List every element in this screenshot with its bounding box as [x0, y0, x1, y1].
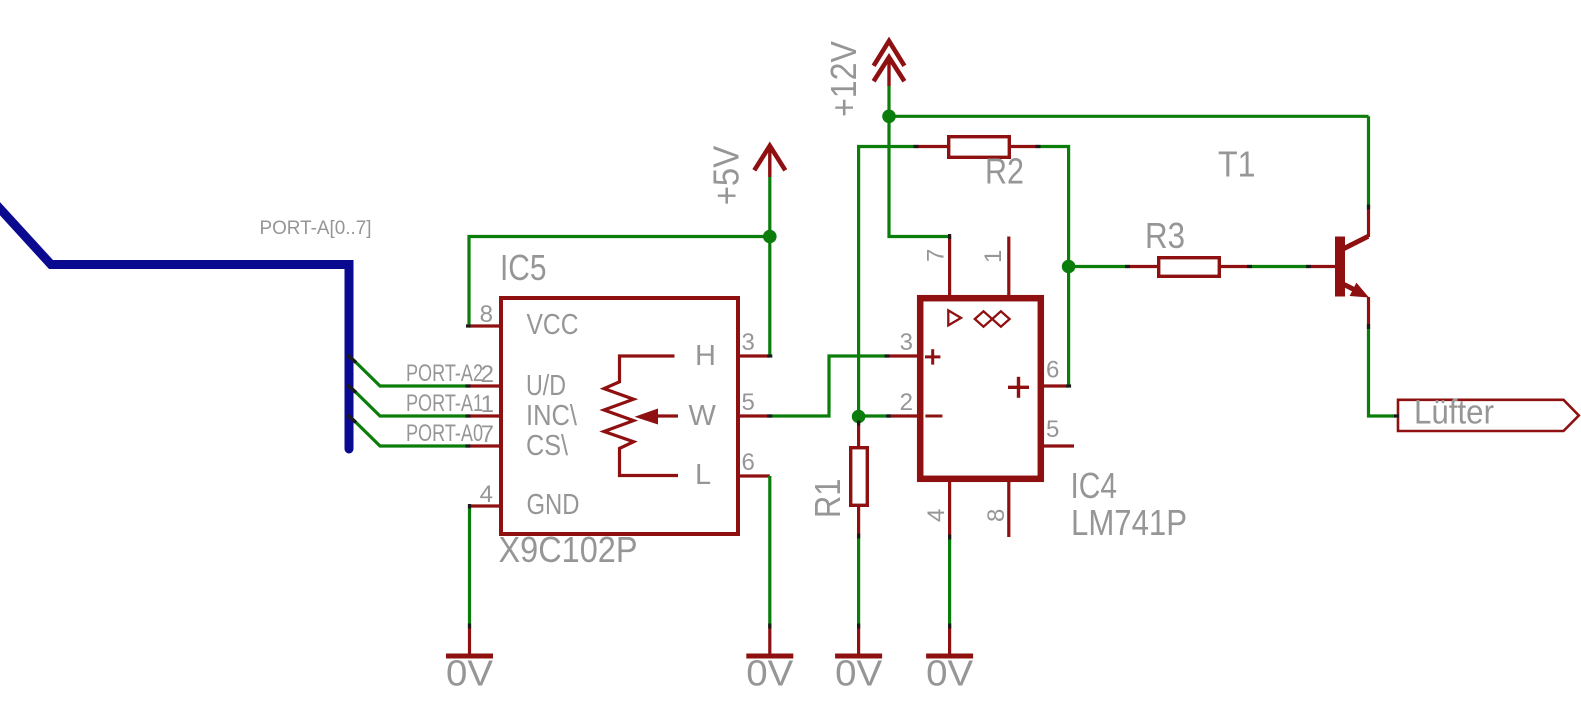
op-amp minus (pin2) — [925, 415, 942, 418]
op-amp plus (pin6 output) — [1008, 386, 1029, 389]
wire IC5 pin6 L to ground — [768, 476, 771, 626]
wire R2 right to output node — [1038, 147, 1069, 267]
wire IC5 GND to ground — [468, 506, 471, 626]
bus tap black mark PORT-A2 — [348, 355, 357, 363]
svg-text:U/D: U/D — [526, 370, 566, 402]
supply symbol +12V — [874, 41, 905, 66]
Luefter flag — [1398, 400, 1579, 431]
svg-text:R1: R1 — [807, 479, 848, 519]
wire feedback net (R2 left to pin2 node) — [859, 147, 916, 417]
wire pin2 node to op-amp pin2 — [859, 414, 889, 417]
svg-text:1: 1 — [481, 391, 494, 418]
svg-text:X9C102P: X9C102P — [499, 529, 638, 570]
op-amp plus (pin3) — [925, 355, 940, 358]
svg-text:0V: 0V — [926, 653, 973, 694]
IC5 pin 1 INC stub — [469, 414, 501, 417]
wire output node to op-amp pin6 — [1067, 267, 1070, 387]
svg-text:GND: GND — [527, 489, 580, 521]
svg-text:VCC: VCC — [527, 309, 579, 341]
IC5 pin 5 W stub — [738, 414, 770, 417]
ground symbol 0V (IC5 L) — [768, 626, 771, 654]
junction tick marks (black) — [466, 147, 1400, 629]
IC5 potentiometer symbol — [604, 356, 678, 476]
op-amp pin 4 stub — [948, 481, 951, 537]
wire +5V vertical — [768, 177, 771, 237]
wire net PORT-A1 (bus tap to IC5 pin INC) — [352, 389, 469, 417]
svg-text:0V: 0V — [835, 653, 882, 694]
op-amp infinity symbol — [975, 311, 1010, 326]
wire R3 to T1 base — [1249, 265, 1308, 268]
svg-text:8: 8 — [983, 509, 1010, 522]
ground symbol 0V (R1) — [857, 626, 860, 654]
op-amp pin 7 stub — [948, 237, 951, 297]
wire op-amp pin4 to ground — [948, 537, 951, 626]
op-amp triangle symbol — [948, 310, 961, 325]
op-amp pin 2 stub — [888, 414, 917, 417]
wire net PORT-A0 (bus tap to IC5 pin CS) — [352, 419, 469, 447]
resistor R2 — [916, 145, 949, 148]
svg-text:W: W — [689, 400, 717, 432]
IC5 pin 7 CS stub — [469, 444, 501, 447]
IC5 wiper arrow — [656, 414, 678, 417]
svg-text:PORT-A2: PORT-A2 — [406, 360, 483, 387]
transistor T1 — [1335, 237, 1345, 297]
wire R1 to ground — [857, 536, 860, 626]
resistor R1 — [857, 421, 860, 447]
wire T1 collector up — [1367, 116, 1370, 207]
svg-text:2: 2 — [900, 389, 913, 416]
junction dot output node — [1062, 260, 1076, 274]
svg-text:CS\: CS\ — [526, 430, 569, 462]
op-amp pin 6 stub — [1044, 384, 1069, 387]
op-amp pin 5 stub — [1044, 444, 1074, 447]
junction dot +12V node — [882, 110, 896, 124]
svg-text:Lüfter: Lüfter — [1414, 394, 1494, 432]
bus tap black mark PORT-A0 — [348, 415, 357, 423]
svg-text:PORT-A1: PORT-A1 — [406, 390, 483, 417]
svg-text:0V: 0V — [746, 653, 793, 694]
svg-text:5: 5 — [742, 389, 755, 416]
svg-text:PORT-A[0..7]: PORT-A[0..7] — [260, 218, 372, 239]
junction dot +5V node — [763, 230, 777, 244]
svg-text:PORT-A0: PORT-A0 — [406, 420, 483, 447]
wire T1 emitter to Luefter — [1369, 327, 1397, 417]
junction dot pin2 node — [852, 410, 866, 424]
svg-text:3: 3 — [900, 329, 913, 356]
wire output node to R3 — [1069, 265, 1127, 268]
svg-text:+12V: +12V — [823, 41, 864, 117]
svg-text:R3: R3 — [1145, 215, 1185, 256]
wire VCC net (IC5 pin8 to +5V) — [469, 237, 770, 327]
svg-text:4: 4 — [480, 481, 493, 508]
svg-text:T1: T1 — [1218, 144, 1256, 185]
wire W net (IC5 pin5 to op-amp pin3) — [770, 356, 887, 416]
wire +12V vertical — [887, 86, 890, 116]
svg-text:7: 7 — [481, 421, 494, 448]
IC5 pin 6 L stub — [738, 474, 770, 477]
IC5 pin 3 H stub — [738, 354, 770, 357]
resistor R3 — [1127, 265, 1158, 268]
wire net PORT-A2 (bus tap to IC5 pin U/D) — [352, 359, 469, 387]
op-amp pin 1 stub — [1007, 237, 1010, 297]
supply symbol +5V — [754, 146, 785, 171]
svg-text:6: 6 — [1046, 357, 1059, 384]
svg-text:8: 8 — [480, 301, 493, 328]
IC5 digital potentiometer X9C102P box — [501, 298, 738, 534]
svg-text:IC4: IC4 — [1071, 465, 1118, 506]
svg-text:R2: R2 — [985, 151, 1024, 192]
op-amp pin 8 stub — [1007, 481, 1010, 537]
IC5 pin 8 VCC stub — [469, 324, 501, 327]
svg-text:1: 1 — [980, 250, 1007, 263]
ground symbol 0V (op-amp pin4) — [948, 626, 951, 654]
svg-text:6: 6 — [742, 449, 755, 476]
svg-text:3: 3 — [742, 329, 755, 356]
svg-text:+5V: +5V — [706, 146, 747, 206]
svg-text:0V: 0V — [446, 653, 493, 694]
bus tap black mark PORT-A1 — [348, 385, 357, 393]
IC5 pin 2 U/D stub — [469, 384, 501, 387]
op-amp IC4 box — [920, 298, 1041, 479]
svg-text:2: 2 — [481, 361, 494, 388]
svg-text:7: 7 — [923, 249, 950, 262]
T1 base stub — [1308, 265, 1335, 268]
wire +12V node to T1 collector — [889, 115, 1369, 118]
svg-text:H: H — [695, 340, 716, 372]
op-amp pin 3 stub — [887, 354, 918, 357]
wire +5V node to IC5 pin3 — [768, 237, 771, 357]
svg-text:LM741P: LM741P — [1071, 502, 1187, 543]
IC5 pin 4 GND stub — [469, 504, 501, 507]
svg-text:L: L — [695, 459, 711, 491]
svg-text:5: 5 — [1046, 416, 1059, 443]
bus PORT-A[0..7] — [0, 200, 349, 449]
wire +12V node to op-amp pin7 — [889, 116, 950, 236]
svg-text:INC\: INC\ — [526, 400, 578, 432]
svg-text:IC5: IC5 — [500, 247, 547, 288]
svg-text:4: 4 — [923, 509, 950, 522]
ground symbol 0V (IC5 GND) — [468, 626, 471, 654]
